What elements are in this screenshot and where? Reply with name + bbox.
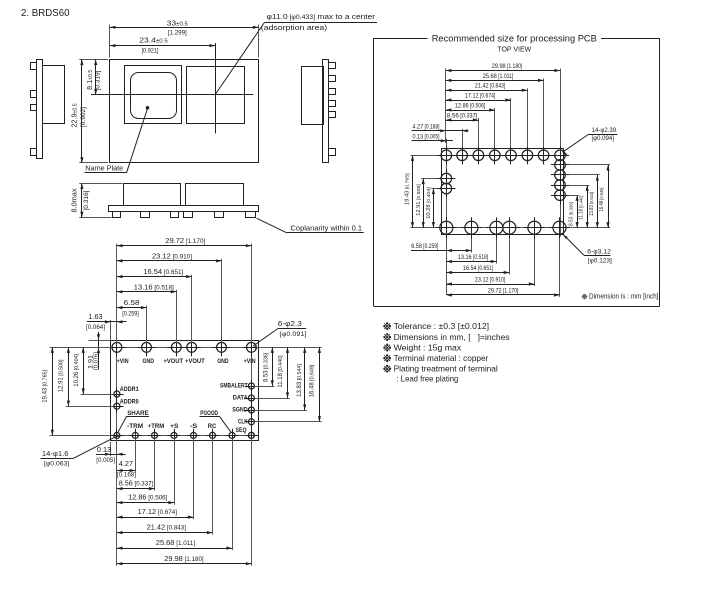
bottom view power pin +VOUT pin (171, 342, 181, 352)
svg-text:0.13: 0.13 (97, 445, 111, 454)
svg-text:SEQ: SEQ (236, 427, 247, 434)
front view pin 4 (184, 212, 193, 218)
PCB right dimension 11.18 (587, 185, 589, 228)
front view body left (124, 184, 181, 206)
bottom view outline (111, 341, 259, 441)
svg-text:29.98 [1.180]: 29.98 [1.180] (492, 63, 523, 70)
PCB top pad 2 (457, 150, 468, 161)
PCB dimension 29.98 (446, 70, 560, 72)
coplanarity leader (257, 218, 288, 233)
svg-text:+VIN: +VIN (117, 358, 129, 365)
PCB left dimension 12.91 (423, 179, 425, 228)
dimension 0.13 (96, 454, 126, 456)
dimension 13.83 right (304, 347, 306, 410)
svg-text:23.12 [0.910]: 23.12 [0.910] (475, 276, 506, 283)
dimension 8.1 +-0.5 (95, 60, 97, 95)
svg-text:29.72 [1.170]: 29.72 [1.170] (165, 236, 205, 245)
svg-text:DATA: DATA (233, 395, 248, 402)
svg-text:[0.064]: [0.064] (86, 324, 105, 331)
svg-text:TOP VIEW: TOP VIEW (497, 44, 531, 53)
dimension 1.63 (110, 320, 112, 340)
PCB bottom pad 5 (528, 221, 541, 234)
svg-text:16.48 [0.649]: 16.48 [0.649] (599, 188, 605, 212)
svg-text:Recommended size for processin: Recommended size for processing PCB (432, 34, 597, 45)
front view pin 6 (246, 212, 256, 218)
svg-text:+S: +S (170, 423, 178, 430)
svg-text:12.86 [0.506]: 12.86 [0.506] (128, 493, 168, 502)
svg-text:[0.259]: [0.259] (122, 310, 139, 317)
note Plating treatment of (384, 365, 391, 372)
svg-text:[0.319]: [0.319] (94, 70, 101, 90)
svg-text:Name Plate: Name Plate (85, 164, 123, 173)
PCB dimension 23.12 (446, 284, 534, 286)
svg-text:12.91 [0.508]: 12.91 [0.508] (416, 184, 422, 216)
bottom view centerline top row (111, 347, 259, 349)
pin ADDR0 (114, 403, 120, 409)
left side view pin tab 3 (31, 105, 37, 111)
svg-text:[0.921]: [0.921] (142, 47, 159, 54)
adsorption center crosshair vertical (215, 43, 217, 134)
svg-text:-S: -S (190, 423, 198, 430)
pin CLK (248, 419, 254, 425)
dimension 33 +-0.5 (110, 27, 259, 29)
recommended PCB box border (374, 38, 428, 40)
right side view pin tab 4 (329, 101, 336, 107)
dimension 22.9 +-0.5 (81, 60, 83, 163)
right side view pin tab 5 (329, 112, 336, 118)
left side view body (43, 66, 65, 124)
PCB top pad 3 (473, 150, 484, 161)
svg-text:13.83 [0.544]: 13.83 [0.544] (297, 364, 303, 397)
pad ext lines right (569, 164, 611, 166)
svg-text:16.54 [0.651]: 16.54 [0.651] (143, 267, 183, 276)
dimension 10.26 left (83, 347, 85, 394)
PCB left dimension 19.43 (412, 155, 414, 227)
svg-text:13.83 [0.544]: 13.83 [0.544] (589, 192, 595, 216)
PCB right pad 2 (555, 170, 566, 181)
bottom row pin 3 (152, 432, 158, 438)
pin SGND (248, 407, 254, 413)
bottom view power pin +VIN pin (247, 342, 257, 352)
svg-text:12.91 [0.508]: 12.91 [0.508] (58, 359, 64, 392)
svg-text:Weight : 15g max: Weight : 15g max (394, 342, 462, 352)
dimension 16.48 right (319, 347, 321, 422)
pad column centerline left (446, 146, 448, 237)
pad row centerline bottom (438, 227, 568, 229)
svg-text:10.28 [0.404]: 10.28 [0.404] (426, 187, 432, 219)
svg-text:SHARE: SHARE (127, 410, 149, 417)
dimension 33 ext lines (109, 25, 111, 58)
svg-text:: Lead free plating: : Lead free plating (397, 374, 459, 384)
pad area outline (442, 149, 564, 235)
front view pin 1 (113, 212, 121, 218)
svg-text:8.0max: 8.0max (69, 188, 78, 212)
svg-text:2. BRDS60: 2. BRDS60 (21, 8, 70, 19)
top dimension ext lines (116, 244, 118, 343)
note Tolerance : ±0.3 [±0 (384, 323, 391, 330)
pad ext lines bottom (446, 218, 448, 295)
svg-text:Dimension is : mm [inch]: Dimension is : mm [inch] (589, 293, 658, 300)
PCB dimension 6.58 (411, 250, 471, 252)
svg-text:11.18 [0.440]: 11.18 [0.440] (278, 355, 284, 388)
PCB dimension 0.13 (412, 140, 453, 142)
right side view pin tab 3 (329, 89, 336, 95)
note Dimensions in mm, [& (384, 334, 391, 341)
svg-text:Dimensions in mm, [ ]=inches: Dimensions in mm, [ ]=inches (394, 332, 510, 342)
bottom view power pin GND pin (217, 342, 227, 352)
top view inner component area left (125, 66, 182, 124)
svg-text:GND: GND (217, 358, 229, 365)
PCB dimension 16.54 (446, 272, 509, 274)
PCB left dimension 10.28 (433, 189, 435, 228)
left side view pin tab 4 (31, 149, 37, 156)
bottom row pin 4 (171, 432, 177, 438)
top view inner component area right (187, 67, 245, 124)
PCB top pad 7 (538, 150, 549, 161)
adsorption center crosshair horizontal (91, 94, 253, 96)
front view body right (186, 184, 244, 206)
PCB bottom pad 4 (503, 221, 516, 234)
PCB dimension 12.86 (446, 110, 495, 112)
pin ADDR1 (114, 391, 120, 397)
PCB bottom pad 2 (465, 221, 478, 234)
PCB dimension 4.27 (412, 130, 469, 132)
name plate rounded square (131, 73, 177, 119)
svg-text:[φ0.123]: [φ0.123] (588, 258, 612, 264)
svg-text:+VOUT: +VOUT (185, 358, 205, 365)
svg-text:+VIN: +VIN (244, 358, 256, 365)
note Terminal material : (384, 355, 391, 362)
dimension 19.43 left (52, 347, 54, 435)
bottom view centerline right column (251, 347, 253, 435)
dimension 12.86 (117, 502, 174, 504)
svg-text:16.54 [0.651]: 16.54 [0.651] (463, 265, 494, 272)
svg-text:17.12 [0.674]: 17.12 [0.674] (465, 92, 496, 99)
PCB top pad 8 (555, 150, 566, 161)
PCB left pad 2 (441, 183, 452, 194)
PCB top pad 4 (490, 150, 501, 161)
pin SMBALERT (248, 383, 254, 389)
PCB top pad 5 (506, 150, 517, 161)
dimension 29.98 (117, 563, 252, 565)
dimension 8.53 right (272, 347, 274, 386)
svg-text:ADDR0: ADDR0 (120, 398, 139, 405)
right side view body (302, 67, 324, 125)
bottom view centerline left column (116, 347, 118, 435)
bottom row pin 8 (248, 432, 254, 438)
bottom row pin 6 (210, 432, 216, 438)
svg-text:1.63: 1.63 (88, 312, 102, 321)
svg-text:29.98 [1.180]: 29.98 [1.180] (164, 554, 204, 563)
left side view pin tab 1 (31, 63, 37, 70)
svg-text:[φ0.091]: [φ0.091] (280, 331, 307, 338)
svg-text:+TRM: +TRM (148, 423, 164, 430)
dimension 11.18 right (287, 347, 289, 398)
svg-text:6-φ3.12: 6-φ3.12 (587, 248, 611, 255)
dimension 23.4 +-0.5 (110, 45, 215, 47)
svg-text:[1.299]: [1.299] (168, 29, 187, 36)
front view pin 2 (141, 212, 150, 218)
bottom row pin 1 (114, 432, 120, 438)
left dimension ext lines (50, 347, 111, 349)
note Weight : 15g max (384, 344, 391, 351)
left side view pin tab 2 (31, 91, 37, 98)
svg-text:φ11.0 [φ0.433] max to a cente: φ11.0 [φ0.433] max to a center (267, 12, 376, 21)
dimension 21.42 (117, 532, 213, 534)
name plate leader (85, 172, 127, 174)
svg-text:8.53 [0.336]: 8.53 [0.336] (263, 352, 269, 382)
top view outer body outline (110, 60, 259, 163)
PCB bottom pad 6 (553, 221, 566, 234)
svg-text:13.16 [0.518]: 13.16 [0.518] (458, 254, 489, 261)
bottom row pin 2 (132, 432, 138, 438)
svg-text:4.27: 4.27 (119, 459, 133, 468)
pad ext lines left (411, 155, 438, 157)
name plate pointer dot (146, 106, 150, 110)
front view pin 3 (171, 212, 179, 218)
svg-text:8.56 [0.337]: 8.56 [0.337] (119, 479, 154, 488)
svg-text:23.12 [0.910]: 23.12 [0.910] (152, 251, 192, 260)
svg-text:Coplanarity within 0.1: Coplanarity within 0.1 (291, 224, 363, 233)
PCB dimension 21.42 (446, 90, 528, 92)
svg-text:[φ0.063]: [φ0.063] (44, 460, 70, 467)
bottom view centerline bottom row (111, 435, 259, 437)
svg-text:SGND: SGND (232, 407, 248, 414)
PCB dimension 8.56 (446, 120, 479, 122)
pad row centerline top (438, 155, 567, 157)
svg-text:(adsorption area): (adsorption area) (261, 23, 327, 32)
svg-text:PGOOD: PGOOD (200, 410, 218, 417)
pad ext lines top (445, 69, 447, 144)
svg-text:Tolerance : ±0.3 [±0.012]: Tolerance : ±0.3 [±0.012] (394, 321, 490, 331)
PCB bottom pad 3 (490, 221, 503, 234)
dimension 23.12 (117, 260, 222, 262)
dimension 13.16 (117, 291, 176, 293)
svg-text:ADDR1: ADDR1 (120, 386, 139, 393)
dimension 6.58 (117, 307, 147, 309)
bottom row pin 5 (191, 432, 197, 438)
PCB right dimension 8.53 (577, 195, 579, 228)
svg-text:21.42 [0.843]: 21.42 [0.843] (147, 523, 187, 532)
svg-text:25.68 [1.011]: 25.68 [1.011] (483, 73, 514, 80)
right dimension ext lines (256, 347, 321, 349)
right side view pin tab 2 (329, 76, 336, 82)
svg-text:6-φ2.3: 6-φ2.3 (278, 319, 302, 328)
front view base plate (109, 206, 259, 212)
svg-text:[0.902]: [0.902] (80, 107, 87, 127)
svg-text:17.12 [0.674]: 17.12 [0.674] (138, 507, 178, 516)
svg-text:SMBALERT: SMBALERT (220, 383, 248, 390)
right side view pin tab 6 (329, 149, 336, 156)
dimension 29.72 (117, 245, 252, 247)
left side view base plate (37, 60, 43, 159)
front view pin 5 (215, 212, 224, 218)
bottom view power pin +VIN pin 1 (112, 342, 122, 352)
svg-text:CLK: CLK (238, 418, 248, 425)
svg-text:16.48 [0.649]: 16.48 [0.649] (310, 364, 316, 397)
PCB right pad 4 (555, 190, 566, 201)
bottom dimension ref ext lines (110, 442, 112, 456)
svg-text:Terminal material : copper: Terminal material : copper (394, 353, 489, 363)
svg-text:[0.168]: [0.168] (117, 471, 136, 478)
svg-text:8.56 [0.337]: 8.56 [0.337] (447, 112, 478, 119)
svg-text:4.27 [0.168]: 4.27 [0.168] (413, 123, 440, 130)
PCB right dimension 13.83 (597, 175, 599, 228)
svg-text:0.13 [0.005]: 0.13 [0.005] (413, 133, 440, 140)
bottom view power pin GND pin (142, 342, 152, 352)
PCB right pad 1 (555, 160, 566, 171)
PCB top pad 1 (441, 150, 452, 161)
svg-text:-TRM: -TRM (127, 423, 143, 430)
dimension 16.54 (117, 276, 192, 278)
svg-text:11.18 [0.440]: 11.18 [0.440] (579, 196, 585, 220)
right side view pin tab 1 (329, 63, 336, 69)
PCB right dimension 16.48 (608, 165, 610, 228)
dimension 8.0max (81, 184, 83, 218)
pad column centerline right (560, 146, 562, 237)
dimension 12.91 left (68, 347, 70, 406)
svg-text:Plating treatment of terminal: Plating treatment of terminal (394, 364, 498, 374)
svg-text:14-φ2.39: 14-φ2.39 (592, 127, 617, 134)
bottom row pin 7 (229, 432, 235, 438)
PCB dimension 13.16 (446, 261, 496, 263)
svg-text:14-φ1.6: 14-φ1.6 (42, 449, 69, 458)
svg-text:21.42 [0.843]: 21.42 [0.843] (475, 83, 506, 90)
svg-text:12.86 [0.506]: 12.86 [0.506] (455, 102, 486, 109)
PCB bottom pad 1 (440, 221, 453, 234)
dimension 25.68 (117, 548, 232, 550)
svg-text:19.43 [0.765]: 19.43 [0.765] (42, 370, 48, 403)
dimension 1.91 (89, 340, 111, 342)
svg-text:[0.316]: [0.316] (83, 190, 90, 210)
svg-text:8.53 [0.336]: 8.53 [0.336] (568, 202, 574, 226)
PCB dimension unit note (582, 294, 587, 299)
PCB dimension 17.12 (446, 100, 511, 102)
svg-text:25.68 [1.011]: 25.68 [1.011] (156, 538, 196, 547)
svg-text:10.26 [0.404]: 10.26 [0.404] (74, 354, 80, 387)
PCB top pad 6 (522, 150, 533, 161)
dimension 8.56 (117, 488, 155, 490)
svg-text:6.58 [0.259]: 6.58 [0.259] (411, 243, 438, 250)
PCB right pad 3 (555, 180, 566, 191)
svg-text:29.72 [1.170]: 29.72 [1.170] (488, 287, 519, 294)
svg-text:GND: GND (143, 358, 155, 365)
svg-text:+VOUT: +VOUT (163, 358, 183, 365)
pin SEQ corner (248, 432, 254, 438)
PCB left pad 1 (441, 173, 452, 184)
right side view base plate (323, 60, 329, 163)
dimension 8.0max ext lines (79, 183, 122, 185)
PCB dimension 29.72 (446, 294, 559, 296)
svg-text:[0.076]: [0.076] (94, 352, 100, 370)
svg-text:[0.005]: [0.005] (96, 457, 115, 464)
pin DATA (248, 395, 254, 401)
dimension 17.12 (117, 517, 194, 519)
svg-text:[φ0.094]: [φ0.094] (592, 136, 615, 142)
svg-text:13.16 [0.518]: 13.16 [0.518] (134, 282, 174, 291)
dimension 4.27 (117, 470, 135, 472)
svg-text:6.58: 6.58 (124, 298, 140, 307)
svg-text:RC: RC (208, 423, 217, 430)
dimension 22.9 ext lines (79, 59, 108, 61)
adsorption callout leader (265, 22, 378, 24)
bottom view power pin +VOUT pin (187, 342, 197, 352)
PCB dimension 25.68 (446, 80, 544, 82)
svg-text:19.43 [0.765]: 19.43 [0.765] (405, 173, 411, 205)
